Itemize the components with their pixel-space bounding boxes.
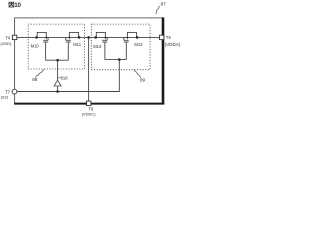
svg-text:(VDDA): (VDDA) [165, 42, 181, 47]
main VDD rail wire [17, 36, 160, 38]
terminal T5 pad [160, 35, 164, 39]
PMOS arrow M10 [45, 37, 47, 40]
node dot M11 source [78, 36, 81, 39]
buffer triangle 816 [54, 80, 61, 86]
wire node 816 stem upper [57, 60, 59, 80]
leader 89 [134, 70, 141, 78]
svg-text:T5: T5 [166, 35, 172, 40]
wire S2 horizontal from T7 [17, 91, 120, 93]
wire T6 lead vertical [88, 37, 90, 101]
svg-text:M12: M12 [134, 42, 143, 47]
PMOS arrow M12 [126, 37, 128, 40]
svg-text:87: 87 [161, 2, 167, 8]
terminal T6 pad [87, 101, 91, 105]
outer box 87 (chip boundary) [15, 18, 163, 104]
outer box thick bottom edge [14, 103, 164, 105]
gate tie wire left pair [46, 59, 69, 61]
transistor M10 [37, 32, 48, 60]
node dot M13 source [94, 36, 97, 39]
gate tie wire right pair [105, 59, 126, 61]
svg-text:T4: T4 [5, 35, 11, 40]
terminal T7 pad [12, 89, 17, 94]
svg-text:M13: M13 [93, 44, 102, 49]
svg-text:89: 89 [140, 78, 146, 83]
transistor M12 [124, 32, 137, 59]
leader 88 [35, 69, 44, 77]
PMOS arrow M13 [104, 37, 106, 40]
svg-text:(S2): (S2) [1, 94, 9, 99]
PMOS arrow M11 [68, 37, 70, 40]
wire right gate node down [118, 60, 120, 92]
leader to 87 [156, 6, 160, 14]
label 816 [58, 77, 60, 78]
figure caption 図10 [9, 2, 14, 7]
transistor M11 [66, 32, 79, 60]
wire 816 stem lower [57, 86, 59, 92]
outer box thick right edge [162, 17, 165, 104]
node dot M10 source [35, 36, 38, 39]
node dot M12 source [136, 36, 139, 39]
node dot left gate tie [56, 59, 59, 62]
svg-text:(VDDC): (VDDC) [82, 111, 97, 116]
svg-text:10: 10 [14, 2, 21, 9]
node dot T6 tap on rail [87, 36, 90, 39]
svg-text:M10: M10 [31, 43, 40, 48]
terminal T4 pad [12, 35, 16, 39]
node dot right gate tie [118, 58, 121, 61]
svg-text:(VDD): (VDD) [0, 41, 12, 46]
svg-text:M11: M11 [73, 42, 82, 47]
node dot S2/816 junction [56, 90, 59, 93]
dashed box 88 [28, 24, 84, 69]
svg-text:816: 816 [61, 76, 69, 81]
dashed box 89 [91, 24, 150, 70]
svg-text:88: 88 [32, 77, 38, 82]
transistor M13 [96, 32, 107, 59]
